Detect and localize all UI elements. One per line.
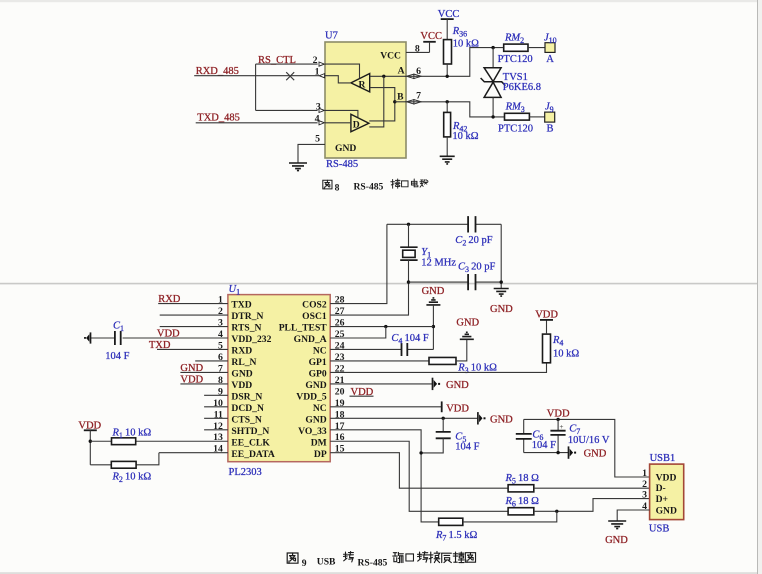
svg-text:VDD_232: VDD_232 <box>231 334 271 345</box>
svg-text:A: A <box>398 66 405 77</box>
svg-text:GND: GND <box>335 143 356 154</box>
svg-text:C3 20 pF: C3 20 pF <box>458 261 495 274</box>
svg-text:USB: USB <box>649 524 669 535</box>
svg-text:10U/16 V: 10U/16 V <box>568 435 610 446</box>
svg-text:DM: DM <box>311 437 327 448</box>
svg-text:PLL_TEST: PLL_TEST <box>279 323 328 334</box>
svg-text:2: 2 <box>642 479 647 490</box>
svg-text:SHTD_N: SHTD_N <box>231 426 269 437</box>
svg-text:RL_N: RL_N <box>231 357 256 368</box>
svg-text:U7: U7 <box>325 31 338 42</box>
svg-text:GND: GND <box>180 363 203 374</box>
svg-text:VDD: VDD <box>446 403 469 414</box>
svg-text:20: 20 <box>335 386 345 397</box>
svg-text:10 kΩ: 10 kΩ <box>553 349 579 360</box>
svg-text:VDD: VDD <box>180 374 203 385</box>
svg-text:VDD: VDD <box>656 473 677 484</box>
svg-text:D-: D- <box>656 483 666 494</box>
svg-text:VCC: VCC <box>380 51 401 62</box>
svg-text:C4 104 F: C4 104 F <box>391 333 428 346</box>
svg-text:GND: GND <box>422 286 445 297</box>
svg-text:5: 5 <box>315 134 320 145</box>
svg-text:104 F: 104 F <box>455 441 479 452</box>
svg-text:TXD: TXD <box>231 300 251 311</box>
svg-text:CTS_N: CTS_N <box>231 414 261 425</box>
svg-text:DTR_N: DTR_N <box>231 311 263 322</box>
svg-text:USB: USB <box>317 557 336 568</box>
svg-text:GP1: GP1 <box>309 357 327 368</box>
svg-text:P6KE6.8: P6KE6.8 <box>503 82 541 93</box>
svg-text:C2 20 pF: C2 20 pF <box>455 235 492 248</box>
svg-text:DP: DP <box>314 449 327 460</box>
svg-text:DSR_N: DSR_N <box>231 391 262 402</box>
svg-text:OSC1: OSC1 <box>302 311 327 322</box>
svg-text:D+: D+ <box>656 494 668 505</box>
svg-text:RXD: RXD <box>231 346 252 357</box>
svg-text:GND: GND <box>490 304 513 315</box>
svg-text:PTC120: PTC120 <box>498 54 533 65</box>
svg-text:R6 18 Ω: R6 18 Ω <box>505 496 540 509</box>
svg-text:GND: GND <box>656 506 677 517</box>
svg-text:1: 1 <box>642 468 647 479</box>
svg-text:R1 10 kΩ: R1 10 kΩ <box>112 428 152 441</box>
svg-text:GND: GND <box>490 414 513 425</box>
svg-text:VCC: VCC <box>420 31 442 42</box>
svg-text:GND: GND <box>305 414 326 425</box>
svg-text:PTC120: PTC120 <box>498 124 533 135</box>
svg-text:VO_33: VO_33 <box>298 426 327 437</box>
svg-text:RS-485: RS-485 <box>326 159 358 170</box>
svg-text:R: R <box>359 79 367 90</box>
svg-text:R7 1.5 kΩ: R7 1.5 kΩ <box>435 530 478 543</box>
svg-text:B: B <box>397 92 404 103</box>
svg-text:NC: NC <box>313 403 327 414</box>
svg-text:104 F: 104 F <box>532 440 556 451</box>
svg-text:12 MHz: 12 MHz <box>421 258 456 269</box>
svg-text:TXD_485: TXD_485 <box>197 113 240 124</box>
svg-text:RS-485: RS-485 <box>354 182 384 193</box>
svg-text:VDD: VDD <box>157 329 180 340</box>
svg-text:D: D <box>353 120 360 131</box>
svg-text:VDD: VDD <box>231 380 252 391</box>
svg-text:A: A <box>546 54 554 65</box>
svg-text:VDD_5: VDD_5 <box>296 391 327 402</box>
svg-text:COS2: COS2 <box>302 300 327 311</box>
svg-text:GND: GND <box>456 317 479 328</box>
svg-text:104 F: 104 F <box>105 351 129 362</box>
svg-text:B: B <box>546 124 553 135</box>
svg-text:RTS_N: RTS_N <box>231 323 261 334</box>
svg-text:GND: GND <box>446 380 469 391</box>
svg-text:8: 8 <box>335 183 340 194</box>
svg-text:NC: NC <box>313 346 327 357</box>
svg-text:9: 9 <box>302 558 307 569</box>
svg-text:GP0: GP0 <box>309 369 327 380</box>
svg-text:R2 10 kΩ: R2 10 kΩ <box>112 472 152 485</box>
svg-text:GND: GND <box>231 369 252 380</box>
svg-text:GND: GND <box>305 380 326 391</box>
svg-text:GND: GND <box>605 535 628 546</box>
svg-text:DCD_N: DCD_N <box>231 403 264 414</box>
svg-text:EE_CLK: EE_CLK <box>231 437 270 448</box>
svg-text:R5 18 Ω: R5 18 Ω <box>505 473 540 486</box>
svg-text:3: 3 <box>642 489 647 500</box>
svg-text:10 kΩ: 10 kΩ <box>452 131 478 142</box>
svg-text:+: + <box>560 423 564 431</box>
svg-text:PL2303: PL2303 <box>229 467 262 478</box>
svg-text:USB1: USB1 <box>650 453 676 464</box>
svg-text:RXD: RXD <box>158 294 181 305</box>
svg-text:RS-485: RS-485 <box>358 558 388 569</box>
svg-text:VDD: VDD <box>535 310 558 321</box>
svg-text:GND: GND <box>584 449 607 460</box>
svg-text:EE_DATA: EE_DATA <box>231 449 274 460</box>
svg-text:GND_A: GND_A <box>294 334 327 345</box>
svg-text:7: 7 <box>416 91 421 102</box>
svg-text:TXD: TXD <box>149 340 171 351</box>
